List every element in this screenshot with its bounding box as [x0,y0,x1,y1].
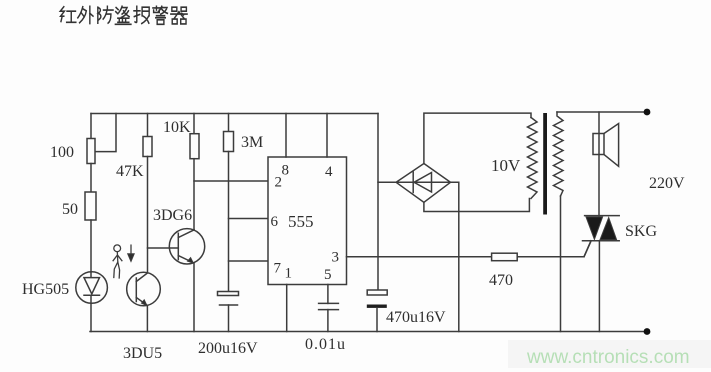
wire bridge top to transformer secondary [424,113,531,163]
svg-text:470: 470 [489,272,513,289]
svg-text:555: 555 [288,212,314,231]
op-amp U1 555 timer box [268,157,347,285]
svg-text:2: 2 [275,175,283,191]
resistor 470 [492,253,518,261]
capacitor 470u16V [367,290,387,308]
wire primary bottom to ground rail [560,196,562,332]
wire base of 3DG6 [148,247,179,249]
triac SKG [583,216,620,332]
svg-text:3DG6: 3DG6 [153,207,192,224]
wire pin8 to rail [285,114,287,158]
node 220V mains terminal top [644,109,651,116]
photodiode HG505 [76,272,108,304]
svg-text:SKG: SKG [625,223,657,240]
svg-text:10K: 10K [163,119,191,136]
wire V+ to bridge [378,181,396,183]
svg-text:4: 4 [325,164,333,180]
wire tap of resistor 100 [95,114,116,152]
wire bridge bottom to transformer secondary [424,199,530,212]
svg-text:3DU5: 3DU5 [123,345,162,362]
wire bridge minus to ground [451,182,459,331]
svg-text:7: 7 [274,261,282,277]
wire left rail top [90,114,92,140]
resistor 50 [85,192,96,220]
infrared beam arrow [128,245,135,261]
svg-text:3M: 3M [241,134,263,151]
wire 10K to pin2 node and 3DG6 collector [193,159,195,230]
svg-text:0.01u: 0.01u [305,336,346,353]
svg-text:47K: 47K [116,163,144,180]
wire 0.01u to ground [327,310,329,332]
person intrusion figure [113,245,122,278]
wire 200u to ground [228,305,230,332]
wire 3DU5 emitter to ground [146,306,148,332]
svg-text:www.cntronics.com: www.cntronics.com [526,347,690,368]
wire pin5 to capacitor 0.01u [327,285,329,304]
wire 3DG6 emitter to ground [193,263,195,332]
svg-text:50: 50 [62,201,78,218]
wire 47K to base node and 3DU5 collector [147,157,149,273]
capacitor 200u16V [218,292,239,306]
wire photodiode to bottom rail [90,303,92,331]
transistor 3DG6 [169,229,204,264]
wire pin1 to ground [286,285,288,332]
wire 47K branch from rail [147,114,149,138]
wire top supply rail [91,113,378,115]
wire 3M branch from rail [228,114,230,133]
transformer core [543,113,547,215]
wire pin7 discharge line [229,260,269,262]
svg-text:HG505: HG505 [22,281,69,298]
resistor 10K [190,134,199,159]
watermark background [508,340,711,368]
capacitor 0.01u [319,303,339,309]
wire top right mains rail [557,111,647,113]
speaker [593,112,619,216]
transformer 10V secondary winding [528,118,538,199]
resistor 3M [224,132,234,152]
wire 3M down to capacitor 200u [228,152,230,292]
svg-text:200u16V: 200u16V [198,340,258,357]
svg-text:220V: 220V [649,175,685,192]
svg-text:8: 8 [282,163,290,179]
wire pin4 to rail [326,114,328,158]
wire V+ vertical from rail to filter cap [377,114,379,291]
svg-text:3: 3 [332,250,340,266]
resistor 47K [143,137,152,157]
svg-text:5: 5 [324,267,332,283]
wire resistor 50 to photodiode [90,220,92,272]
wire 470u to ground [376,308,378,332]
wire pin2 trigger line [194,180,268,182]
wire 10K branch from rail [193,114,195,135]
phototransistor 3DU5 [127,272,161,306]
wire between resistor 100 and resistor 50 [90,164,92,193]
transformer 220V primary winding [554,112,564,196]
svg-text:1: 1 [285,266,293,282]
title 红外防盗报警器 [60,6,187,24]
wire bottom ground rail [90,331,647,333]
svg-text:6: 6 [271,214,279,230]
svg-text:470u16V: 470u16V [386,309,446,326]
svg-text:100: 100 [50,144,74,161]
resistor 100 [87,139,95,164]
node 220V mains terminal bottom [644,328,651,335]
svg-text:10V: 10V [491,156,521,175]
wire pin3 output line [347,241,592,257]
diode bridge rectifier [396,164,450,203]
wire pin6 threshold line [229,218,269,220]
